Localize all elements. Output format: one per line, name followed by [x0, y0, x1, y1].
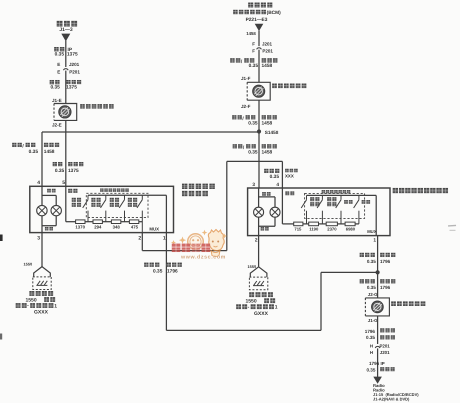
- svg-text:J1-G: J1-G: [368, 318, 378, 323]
- label 深蓝色 0.35 / 方向盘 1796: [360, 253, 375, 257]
- svg-text:1: 1: [275, 305, 278, 311]
- scan artifact right: [448, 225, 456, 227]
- switch seek down: [317, 195, 322, 224]
- svg-text:1796: 1796: [167, 269, 178, 275]
- resistor R2370: [326, 222, 337, 226]
- wire 1796 to radio arrow: [377, 348, 379, 377]
- ground splice pack G right: [249, 267, 267, 290]
- svg-text:0.35: 0.35: [248, 121, 258, 127]
- svg-text:0.35: 0.35: [367, 259, 376, 264]
- svg-text:1375: 1375: [66, 85, 77, 91]
- MUX rail to pin1: [307, 194, 377, 196]
- node Radio J1-3 header: [57, 21, 77, 27]
- svg-text:1: 1: [54, 303, 57, 309]
- svg-text:J201: J201: [380, 350, 390, 355]
- svg-text:1796: 1796: [369, 361, 380, 366]
- wire XXX tee to pin4: [227, 160, 283, 162]
- switch assembly left (方向盘左侧控制开关) box: [248, 188, 390, 236]
- lamp return merge: [258, 217, 260, 235]
- svg-text:1190: 1190: [309, 226, 319, 231]
- svg-text:XXX: XXX: [285, 174, 294, 179]
- wire pin4 to ladder bus: [281, 188, 283, 224]
- resistor R475: [129, 220, 138, 224]
- svg-text:E: E: [57, 69, 60, 74]
- svg-text:715: 715: [294, 226, 302, 231]
- lamp right: [270, 207, 280, 217]
- svg-text:MUX: MUX: [367, 229, 377, 234]
- svg-text:P201: P201: [69, 69, 80, 74]
- wire 1796 clockspring to H connector: [377, 316, 379, 344]
- lamp return merge: [41, 216, 43, 233]
- switch volume up: [83, 195, 88, 221]
- svg-text:0.35: 0.35: [366, 335, 375, 340]
- splice S1458: [257, 129, 261, 133]
- svg-text:J201: J201: [69, 62, 80, 67]
- svg-text:348: 348: [113, 224, 121, 229]
- svg-text:2: 2: [255, 237, 258, 243]
- label 静音: [362, 200, 370, 204]
- label 灰色/黑色 0.35 / 转向柱 1458: [230, 58, 240, 62]
- svg-text:F: F: [252, 49, 255, 54]
- lamp right (illumination): [51, 205, 61, 215]
- label 方向盘右侧控制开关: [182, 184, 215, 189]
- wire 1375 radio to J201: [65, 41, 67, 67]
- svg-text:www.dzsc.com: www.dzsc.com: [180, 254, 226, 260]
- svg-text:0.35: 0.35: [249, 63, 259, 69]
- svg-text:(BCM): (BCM): [267, 10, 282, 16]
- svg-text:J1—3: J1—3: [59, 27, 73, 33]
- ladder bus segment: [121, 221, 130, 223]
- svg-text:0.35: 0.35: [367, 285, 376, 290]
- resistor R1370: [76, 220, 85, 224]
- svg-text:J1-E: J1-E: [52, 98, 62, 103]
- switch phone: [336, 195, 341, 224]
- svg-text:P201: P201: [380, 344, 391, 349]
- svg-text:P201: P201: [262, 49, 273, 54]
- svg-text:GXXX: GXXX: [34, 310, 49, 316]
- svg-text:3: 3: [37, 235, 40, 241]
- switch seek 4: [137, 195, 142, 232]
- arrow from radio J1-3: [61, 34, 70, 42]
- svg-text:1458: 1458: [262, 150, 273, 156]
- svg-text:J201: J201: [262, 41, 273, 46]
- label 紫色 0.35 / 转向柱 1375: [50, 80, 60, 84]
- label 灰色/黑色 0.35 / 方向盘 1458: [233, 144, 243, 148]
- wire pin2 to ground: [258, 236, 260, 267]
- label 温度特性: [128, 198, 137, 202]
- label 紫色 0.35 / 方向盘 1375: [53, 162, 63, 166]
- wire 1458 S1458 to T: [258, 132, 260, 189]
- switch mute: [354, 195, 359, 224]
- svg-text:J2-G: J2-G: [368, 292, 378, 297]
- lamp feed split: [41, 186, 43, 205]
- label 接地: [45, 227, 53, 230]
- label 深蓝色 0.35 / 方向盘 XXX: [264, 169, 279, 173]
- scan artifact left edge: [0, 235, 3, 242]
- ladder bus segment: [139, 221, 143, 223]
- ladder bus segment: [319, 223, 327, 225]
- label 向下搜索: [327, 197, 336, 201]
- wire 1458 BCM to J201: [258, 31, 260, 46]
- svg-text:GXXX: GXXX: [254, 311, 269, 317]
- watermark dzsc: [171, 230, 227, 261]
- resistor R6980: [345, 222, 355, 226]
- connector H P201/J201: [375, 346, 380, 348]
- svg-text:H: H: [370, 350, 373, 355]
- label 相连: [262, 192, 270, 196]
- svg-text:0.35: 0.35: [50, 85, 60, 91]
- svg-text:F: F: [252, 42, 255, 47]
- svg-text:J2-E: J2-E: [52, 123, 62, 128]
- wire 1458 clockspring to S1458: [258, 100, 260, 131]
- wire XXX interconnect pin2 route: [141, 233, 143, 251]
- svg-text:1458: 1458: [262, 121, 273, 127]
- label 紫色 0.35 / IP 1375: [54, 47, 64, 51]
- svg-text:MUX: MUX: [149, 227, 159, 232]
- svg-text:2370: 2370: [327, 226, 337, 231]
- label 螺旋弹簧线圈: [272, 84, 306, 89]
- lamp feed split: [258, 188, 260, 207]
- MUX rail to pin1: [88, 194, 166, 196]
- lamp left (illumination): [37, 205, 47, 215]
- ladder bus segment: [102, 221, 111, 223]
- label 接地: [261, 227, 269, 230]
- resistor R294: [93, 220, 102, 224]
- svg-text:S1458: S1458: [265, 130, 279, 135]
- wire 1458 branch to left switch: [42, 131, 259, 133]
- svg-text:J2-F: J2-F: [241, 104, 251, 109]
- svg-text:1458: 1458: [246, 31, 256, 36]
- svg-text:475: 475: [131, 224, 139, 229]
- svg-text:H: H: [370, 344, 373, 349]
- label 接地分配 1550 接头 接地-仪表横梁1 GXXX: [249, 292, 273, 297]
- label 相连: [47, 189, 55, 193]
- resistor R1190: [309, 222, 319, 226]
- svg-text:6980: 6980: [346, 226, 356, 231]
- svg-text:0.35: 0.35: [366, 367, 375, 372]
- connector E J201/P201: [63, 69, 68, 71]
- label 灰色/黑色 0.35 / 方向盘 1458: [232, 115, 242, 119]
- svg-text:1796: 1796: [380, 259, 391, 264]
- svg-text:1458: 1458: [262, 63, 273, 69]
- lamp left: [254, 207, 264, 217]
- wire pin5 to ladder bus: [65, 186, 67, 221]
- ground splice pack G left: [33, 267, 51, 290]
- svg-text:1: 1: [373, 237, 376, 243]
- svg-text:5: 5: [62, 180, 65, 186]
- svg-text:1375: 1375: [67, 51, 78, 57]
- svg-text:IP: IP: [381, 361, 385, 366]
- label 向上搜索: [310, 197, 319, 201]
- wire 1796 from left pin1: [165, 233, 167, 331]
- svg-text:J1-F: J1-F: [241, 76, 251, 81]
- junction 1796 merge: [376, 270, 380, 274]
- svg-text:0.35: 0.35: [248, 150, 258, 156]
- connector F J201/P201: [257, 48, 262, 50]
- wire 1458 to clockspring F: [258, 50, 260, 83]
- label 电话: [344, 200, 352, 204]
- arrow to radio: [373, 377, 382, 384]
- wire 1796 right pin1 down: [377, 236, 379, 298]
- ladder bus segment: [85, 221, 93, 223]
- svg-text:1370: 1370: [75, 224, 85, 229]
- arrow from BCM: [255, 24, 264, 31]
- svg-text:1550: 1550: [24, 262, 33, 267]
- ladder bus segment: [337, 223, 345, 225]
- wire 1458 drop to pin 4: [41, 132, 43, 186]
- label 减小音量: [91, 198, 100, 202]
- svg-text:0.35: 0.35: [55, 168, 65, 174]
- svg-text:1: 1: [163, 235, 166, 241]
- switch volume down: [101, 195, 106, 221]
- label 螺旋弹簧线圈: [391, 301, 425, 306]
- ladder bus segment: [355, 223, 359, 225]
- svg-text:0.35: 0.35: [29, 149, 39, 155]
- clockspring coil G: [365, 298, 389, 316]
- label 模拟信号垫连接: [322, 190, 351, 193]
- switch seek up: [301, 195, 306, 224]
- svg-text:0.35: 0.35: [55, 51, 65, 57]
- dashed MUX switch enclosure: [86, 193, 148, 217]
- label 深蓝色 0.35 / 方向盘 1796: [360, 279, 375, 283]
- label 温度升高: [110, 198, 119, 202]
- svg-text:1796: 1796: [380, 285, 391, 290]
- svg-text:0.35: 0.35: [270, 174, 280, 180]
- dashed MUX switch enclosure: [305, 193, 365, 218]
- svg-text:1796: 1796: [365, 329, 376, 334]
- label 螺旋弹簧线圈: [80, 104, 114, 109]
- label 深蓝色 0.35 / 方向盘 1796: [144, 263, 159, 267]
- clockspring coil F: [247, 82, 270, 100]
- ladder bus segment: [303, 223, 309, 225]
- wire pin3 to ground: [41, 233, 43, 267]
- resistor R715: [294, 222, 303, 226]
- label 点火: [68, 189, 77, 193]
- svg-text:294: 294: [94, 224, 102, 229]
- resistor R348: [111, 220, 120, 224]
- svg-text:P221—E3: P221—E3: [246, 17, 268, 23]
- svg-text:E: E: [57, 62, 60, 67]
- label 灰色/黑色 0.35 / 方向盘 1458: [12, 143, 22, 147]
- label 接地分配 1550 接头 接地-仪表横梁1 GXXX: [29, 291, 53, 296]
- svg-text:4: 4: [37, 180, 40, 186]
- svg-text:1550: 1550: [248, 264, 257, 269]
- label 点火: [285, 191, 294, 195]
- label 增大音量: [72, 198, 81, 202]
- switch seek 3: [119, 195, 124, 221]
- clockspring coil E (螺旋弹簧线圈): [54, 104, 77, 121]
- svg-text:1375: 1375: [68, 168, 79, 174]
- svg-text:2: 2: [138, 235, 141, 241]
- svg-text:1458: 1458: [44, 149, 55, 155]
- svg-text:J1-A2(NAVI & DVD): J1-A2(NAVI & DVD): [373, 397, 410, 402]
- wire 1375 J201 to clockspring E: [65, 71, 67, 104]
- switch assembly right (方向盘右侧控制开关) box: [30, 186, 174, 232]
- label 模拟信号垫连接: [100, 188, 129, 191]
- svg-text:0.35: 0.35: [153, 269, 163, 275]
- label 方向盘左侧控制开关: [393, 188, 448, 193]
- wire 1375 clockspring to pin 5: [65, 120, 67, 186]
- node BCM P221-E3 header: [248, 3, 272, 8]
